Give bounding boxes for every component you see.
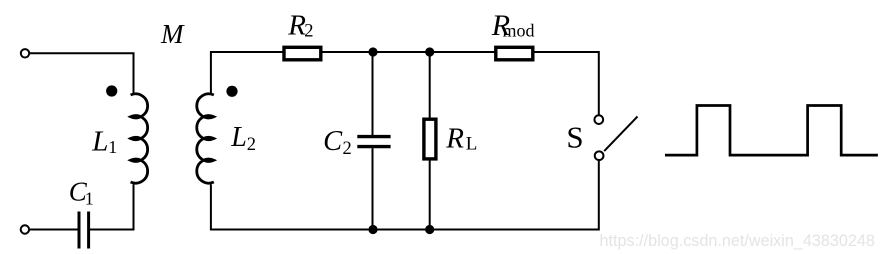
- svg-text:2: 2: [343, 139, 352, 159]
- svg-text:L: L: [466, 134, 478, 155]
- svg-text:https://blog.csdn.net/weixin_4: https://blog.csdn.net/weixin_43830248: [600, 232, 875, 250]
- svg-text:mod: mod: [503, 21, 535, 41]
- svg-text:L: L: [230, 122, 247, 153]
- svg-text:R: R: [445, 122, 464, 154]
- svg-text:1: 1: [85, 188, 94, 208]
- svg-text:M: M: [160, 19, 185, 49]
- svg-text:S: S: [566, 120, 583, 155]
- svg-text:C: C: [323, 126, 343, 157]
- svg-text:1: 1: [108, 137, 117, 157]
- svg-text:2: 2: [247, 135, 256, 155]
- svg-text:2: 2: [304, 22, 313, 42]
- svg-text:L: L: [91, 126, 108, 158]
